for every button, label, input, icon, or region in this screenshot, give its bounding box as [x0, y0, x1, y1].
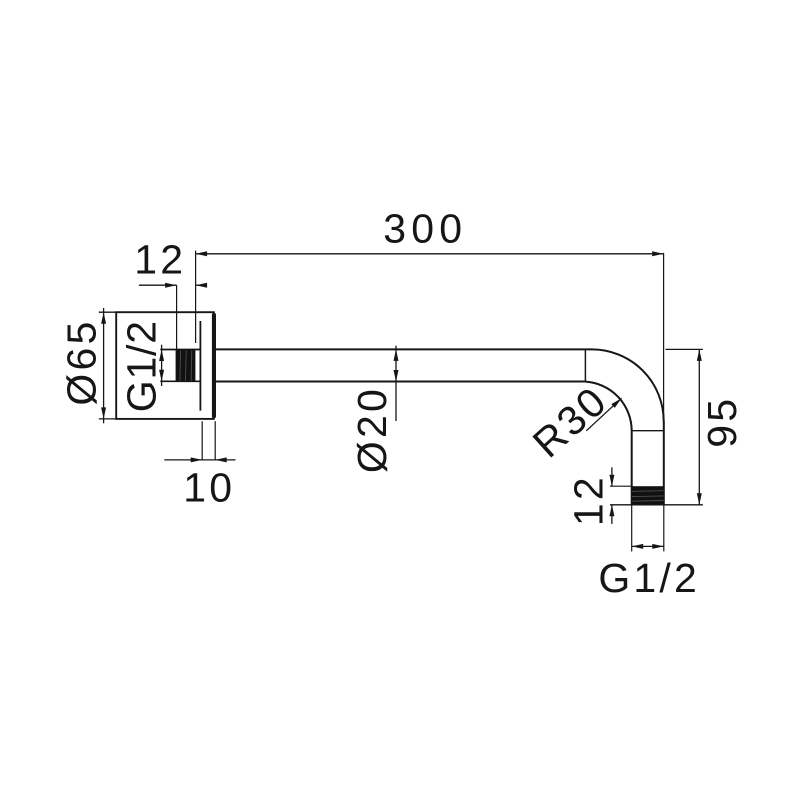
- svg-text:12: 12: [565, 474, 611, 526]
- svg-text:Ø65: Ø65: [59, 319, 105, 406]
- svg-text:300: 300: [383, 206, 467, 252]
- svg-text:12: 12: [134, 237, 186, 283]
- svg-text:95: 95: [699, 396, 745, 448]
- svg-text:Ø20: Ø20: [349, 386, 395, 473]
- svg-text:10: 10: [183, 464, 235, 510]
- svg-text:G1/2: G1/2: [119, 320, 165, 412]
- svg-text:G1/2: G1/2: [598, 555, 700, 601]
